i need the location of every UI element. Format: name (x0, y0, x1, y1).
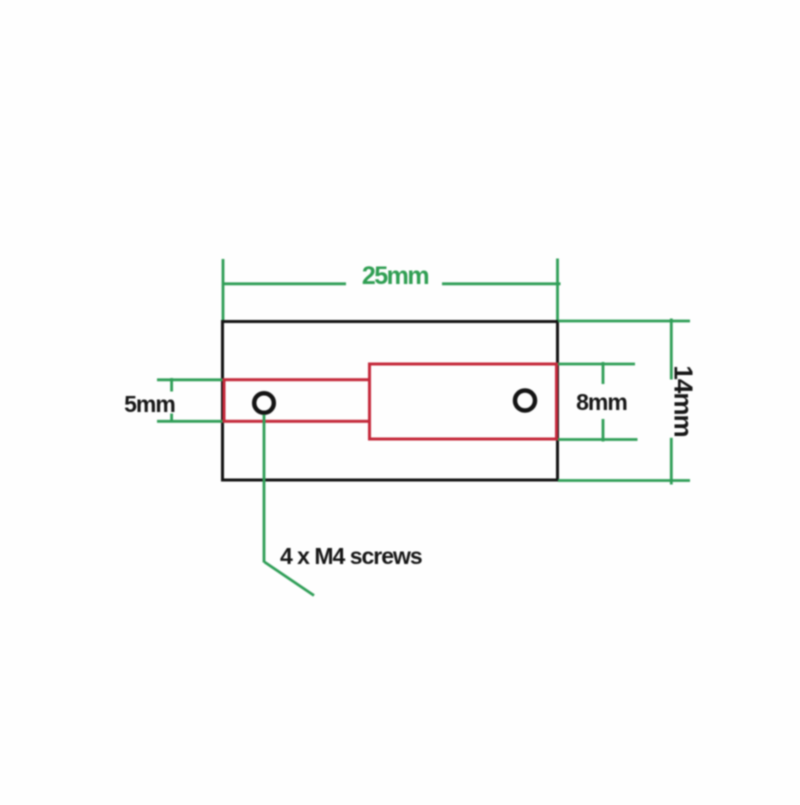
8mm extension line bottom (558, 438, 638, 441)
svg-text:5mm: 5mm (124, 391, 175, 417)
svg-text:4 x M4 screws: 4 x M4 screws (280, 543, 422, 569)
svg-text:25mm: 25mm (362, 262, 429, 290)
bore 5mm rectangle (224, 380, 370, 422)
screw hole right (515, 391, 535, 411)
coupler body outline (223, 322, 558, 481)
bore 8mm rectangle (370, 364, 557, 439)
14mm dimension line upper segment (670, 319, 673, 380)
leader line vertical from left screw hole (263, 415, 266, 563)
svg-text:8mm: 8mm (576, 389, 627, 415)
14mm extension line bottom (558, 479, 690, 482)
8mm dimension stub upper (602, 362, 605, 384)
5mm extension line top (157, 378, 223, 381)
25mm dimension line left segment (222, 282, 346, 285)
extension line top-left corner (222, 259, 225, 320)
14mm dimension line lower segment (670, 438, 673, 485)
5mm dimension stub lower (170, 414, 173, 422)
extension line top-right corner (556, 259, 559, 321)
5mm dimension stub upper (170, 378, 173, 392)
leader line diagonal (265, 562, 315, 596)
svg-text:14mm: 14mm (669, 365, 699, 436)
screw hole left (254, 393, 274, 413)
8mm dimension stub lower (602, 419, 605, 442)
8mm extension line top (558, 363, 635, 366)
5mm extension line bottom (157, 420, 223, 423)
14mm extension line top (558, 320, 690, 323)
25mm dimension line right segment (442, 282, 561, 285)
